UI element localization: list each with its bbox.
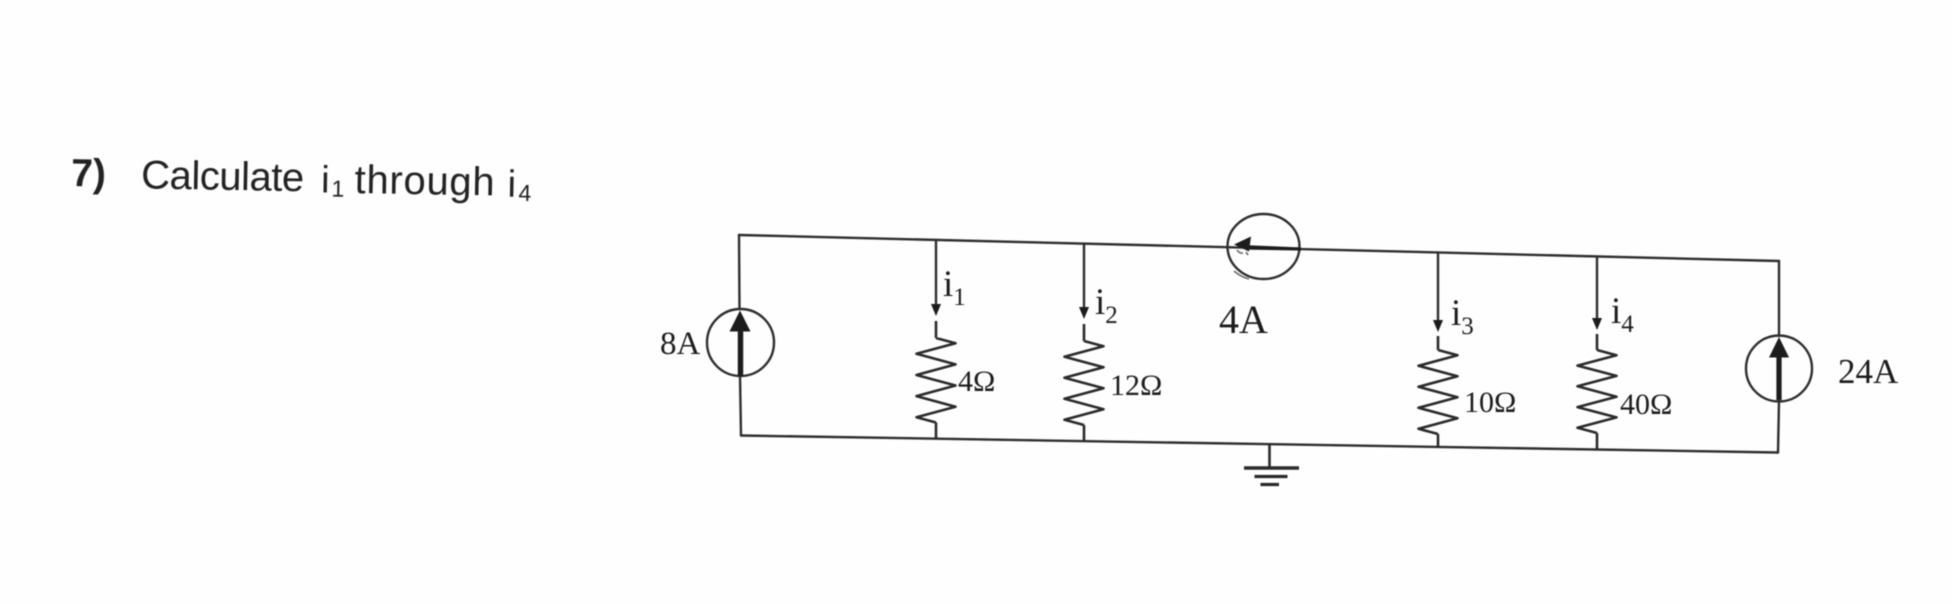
svg-text:i: i: [321, 159, 330, 201]
current source IS2 4A arrow (left): [1234, 237, 1301, 252]
svg-text:8A: 8A: [660, 326, 701, 362]
svg-text:4: 4: [518, 180, 531, 206]
wire left vertical upper: [738, 235, 741, 309]
wire right vertical upper: [1778, 261, 1780, 336]
resistor R4 40ohm: [1578, 334, 1617, 450]
wire left vertical lower: [740, 376, 741, 436]
wire top bus: [739, 235, 1779, 261]
current source IS2 4A circle: [1228, 214, 1300, 279]
svg-text:12Ω: 12Ω: [1110, 369, 1162, 402]
svg-text:4A: 4A: [1219, 297, 1268, 342]
svg-text:7): 7): [71, 152, 106, 196]
wire branch i2: [1083, 244, 1085, 308]
wire right vertical lower: [1778, 401, 1779, 453]
svg-text:4Ω: 4Ω: [958, 365, 995, 398]
wire branch i1: [935, 240, 937, 305]
current source IS1 8A arrow (up): [730, 311, 751, 377]
svg-text:i4: i4: [1611, 291, 1634, 338]
svg-text:10Ω: 10Ω: [1464, 386, 1516, 419]
svg-text:Calculate: Calculate: [141, 153, 305, 200]
current arrow i4: [1592, 318, 1602, 330]
current source IS3 24A arrow (up): [1769, 337, 1789, 400]
svg-text:i1: i1: [943, 264, 966, 311]
svg-text:i2: i2: [1095, 282, 1118, 329]
resistor R2 12ohm: [1065, 324, 1104, 441]
current arrow i2: [1079, 307, 1089, 319]
resistor R1 4ohm: [917, 321, 956, 439]
resistor R3 10ohm: [1419, 336, 1458, 447]
title text: [71, 152, 532, 206]
svg-text:through: through: [354, 158, 495, 204]
svg-text:i: i: [507, 164, 516, 206]
smudge marks inside 4A source: [1234, 250, 1249, 279]
svg-text:24A: 24A: [1838, 352, 1899, 391]
current source IS3 24A circle: [1746, 336, 1812, 402]
current arrow i3: [1433, 320, 1443, 332]
svg-text:40Ω: 40Ω: [1620, 388, 1672, 421]
svg-text:1: 1: [331, 176, 344, 202]
ground: [1244, 444, 1299, 484]
wire branch i3: [1437, 253, 1439, 322]
current arrow i1: [931, 304, 941, 316]
current source IS1 8A circle: [707, 309, 774, 376]
wire branch i4: [1596, 256, 1598, 319]
svg-text:i3: i3: [1451, 293, 1474, 340]
wire bottom bus: [741, 436, 1778, 453]
